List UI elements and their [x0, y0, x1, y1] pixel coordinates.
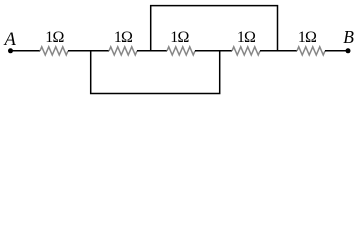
- svg-text:B: B: [343, 27, 354, 47]
- wire: [325, 50, 348, 52]
- wire: [195, 50, 232, 52]
- svg-text:1Ω: 1Ω: [170, 29, 189, 46]
- wire: [11, 50, 41, 52]
- node A: [8, 48, 13, 53]
- wire: [137, 50, 167, 52]
- wire bottom jumper: [91, 51, 220, 94]
- svg-text:1Ω: 1Ω: [237, 29, 256, 46]
- resistor R5: [297, 47, 325, 55]
- svg-text:1Ω: 1Ω: [298, 29, 317, 46]
- wire: [260, 50, 297, 52]
- node B: [346, 48, 351, 53]
- resistor R3: [167, 47, 195, 55]
- resistor R1: [40, 47, 68, 55]
- wire top jumper: [151, 6, 278, 51]
- resistor R4: [232, 47, 260, 55]
- svg-text:1Ω: 1Ω: [114, 29, 133, 46]
- svg-text:1Ω: 1Ω: [45, 29, 64, 46]
- wire: [68, 50, 109, 52]
- svg-text:A: A: [2, 30, 16, 50]
- resistor R2: [109, 47, 137, 55]
